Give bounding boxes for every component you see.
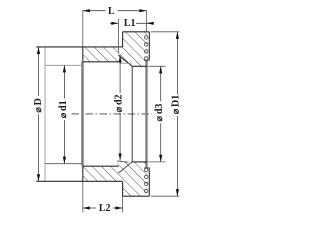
dim L1 arrows: [111, 22, 118, 25]
bore d3 bottom line: [131, 161, 147, 163]
rim ledge lower: [144, 167, 149, 169]
bore d2 bottom line: [83, 165, 119, 167]
thread start edge (vertical through bore): [131, 66, 133, 162]
bore step face (thick gray, seen through bore): [81, 62, 84, 166]
dim dd2 arrows: [119, 55, 122, 62]
dim L extension line left (step, above part): [82, 10, 84, 46]
body OD top edge (with dD extension to left): [36, 46, 122, 48]
dim L2 extension line right (flange face, below part): [122, 196, 124, 212]
dim dD vertical line: [38, 47, 40, 181]
dim dD arrows: [37, 47, 40, 54]
section hatch lower half: [78, 158, 153, 200]
bore d1 bottom line: [45, 163, 83, 165]
thread crest stub upper (gray): [120, 62, 132, 64]
dim L2 horizontal line: [83, 207, 123, 209]
dim dd3 arrows: [159, 66, 162, 73]
flange right face lower rim: [148, 168, 150, 196]
flange OD top edge: [123, 31, 150, 33]
dim L1 horizontal line with outside arrows: [110, 22, 154, 24]
dim dd1 vertical line: [63, 65, 65, 163]
section hatch upper half: [78, 28, 153, 70]
dim L2 extension line left (step, below part): [82, 182, 84, 213]
svg-text:⌀ D1: ⌀ D1: [171, 95, 182, 115]
svg-text:⌀ d3: ⌀ d3: [154, 104, 165, 122]
flange left face lower: [122, 181, 124, 196]
dim dd3 extension lines: [148, 66, 165, 162]
recessed thread face (thick gray, seen through bore): [145, 60, 147, 168]
centerline: [72, 113, 153, 115]
dim dd1 arrows: [63, 65, 66, 72]
dim L2 arrows: [83, 206, 90, 209]
body OD bottom edge: [36, 180, 122, 182]
bore d1 top line: [45, 64, 83, 66]
step section edge lower: [82, 166, 84, 182]
svg-text:⌀ d1: ⌀ d1: [58, 100, 69, 118]
dim L1 extension line left: [117, 19, 119, 54]
thread crest stub lower: [117, 161, 129, 162]
step section edge upper: [82, 47, 84, 63]
thread scallops upper: [145, 36, 148, 60]
left end face (thin): [44, 47, 46, 182]
thread scallops lower: [145, 168, 148, 192]
dim dd3 vertical line: [160, 66, 162, 162]
flange left face upper: [122, 32, 124, 47]
dim dD1 extension lines: [151, 32, 179, 196]
bore d3 top line: [131, 65, 147, 67]
rim ledge upper: [144, 59, 149, 61]
dim dD1 arrows: [176, 32, 179, 39]
svg-text:⌀ D: ⌀ D: [33, 98, 44, 113]
dim L / L1 extension line right: [146, 10, 148, 31]
svg-text:L1: L1: [124, 18, 136, 29]
svg-text:L: L: [108, 6, 115, 17]
flange right face upper rim: [148, 32, 150, 60]
svg-text:⌀ d2: ⌀ d2: [113, 94, 124, 112]
bore d2 top line: [83, 61, 119, 63]
dim L horizontal line: [83, 10, 147, 12]
svg-text:L2: L2: [99, 203, 111, 214]
chamfer cone lower: [118, 162, 131, 173]
dim dD1 vertical line: [176, 32, 178, 196]
chamfer cone upper: [118, 55, 131, 65]
flange OD bottom edge: [123, 195, 150, 197]
dim dd2 vertical line: [119, 55, 121, 160]
dim L arrows: [83, 9, 90, 12]
